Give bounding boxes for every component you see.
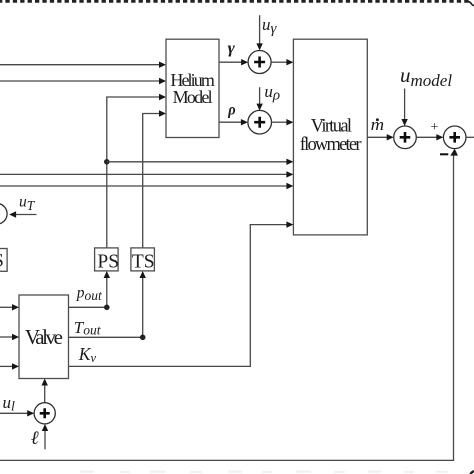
svg-text:flowmeter: flowmeter <box>300 135 362 155</box>
caption fragment bottom-right <box>470 471 474 474</box>
svg-text:pout: pout <box>76 285 103 304</box>
wire: Helium Model input 2 from left edge <box>0 78 166 84</box>
wire: Helium Model input 3 (from PS riser) <box>107 94 166 248</box>
input u_gamma arrow <box>256 15 262 50</box>
junction dot on PS riser <box>104 159 110 165</box>
wire: sum1 to sum2 <box>416 134 443 140</box>
input u_rho arrow <box>256 87 262 110</box>
wire: p_out from Valve with junction, up into PS <box>69 271 111 310</box>
summing junction gamma <box>248 51 271 74</box>
wire: l sum up into Valve bottom <box>42 379 48 403</box>
wire: gamma output Helium to sum <box>219 59 248 65</box>
svg-text:m: m <box>371 115 385 134</box>
wire: Helium Model input 4 (from TS riser) <box>143 110 166 248</box>
block: Helium Model <box>166 39 219 137</box>
wire: T_out from Valve with junction, up into TS <box>69 271 146 340</box>
wire: rho output Helium to sum <box>219 119 248 125</box>
summing junction l <box>34 403 55 424</box>
wire: VF middle input 3 from left edge <box>0 183 293 189</box>
summing junction 2 (comparison) <box>443 126 466 149</box>
wire: Valve input 1 from left edge <box>0 304 19 310</box>
input l arrow from below <box>42 424 48 449</box>
block: PS <box>95 248 119 273</box>
svg-text:Virtual: Virtual <box>311 117 352 137</box>
wire: rho sum to Virtual flowmeter <box>272 119 294 125</box>
svg-text:+: + <box>431 120 439 135</box>
svg-text:S: S <box>0 251 4 272</box>
faint caption noise along bottom <box>80 471 448 474</box>
wire: Valve input 3 from left edge <box>0 363 19 369</box>
svg-text:PS: PS <box>97 252 119 273</box>
input u_model arrow <box>401 89 407 127</box>
svg-text:TS: TS <box>132 252 155 273</box>
block: S sensor (clipped at left edge) <box>0 249 7 272</box>
svg-text:Valve: Valve <box>25 325 63 349</box>
wire: VF middle input 1 from PS riser junction <box>107 159 294 165</box>
wire: feedback from bottom line up into sum2 <box>0 149 458 461</box>
dashed boundary top line <box>0 1 474 5</box>
input u_l arrow <box>0 410 34 416</box>
wire: Valve input 2 from left edge <box>0 334 19 340</box>
wire: VF middle input 2 from left edge <box>0 171 293 177</box>
label minus sign at sum2 <box>440 153 448 155</box>
summing junction u_T (clipped at left edge) <box>0 204 7 225</box>
block: Virtual flowmeter <box>293 39 367 235</box>
block: Valve <box>19 295 69 379</box>
summing junction 1 (mdot + u_model) <box>394 126 417 149</box>
svg-text:γ: γ <box>228 40 236 57</box>
wire: gamma sum to Virtual flowmeter <box>271 59 293 65</box>
wire: K_v from Valve to VF bottom input <box>69 221 294 366</box>
input u_T arrow pointing left into sum <box>9 211 36 217</box>
svg-text:ℓ: ℓ <box>31 428 39 449</box>
summing junction rho <box>248 110 272 134</box>
wire: sum2 output to right edge <box>466 136 474 138</box>
block: TS <box>131 248 155 273</box>
label mdot <box>371 115 385 134</box>
svg-text:ρ: ρ <box>227 102 235 119</box>
wire: Helium Model input 1 from left edge <box>0 62 166 68</box>
wire: mdot output VF to sum 1 <box>367 134 393 140</box>
svg-text:Model: Model <box>173 87 213 107</box>
